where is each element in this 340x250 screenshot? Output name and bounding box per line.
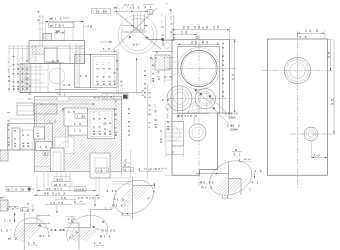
svg-text:3 5: 3 5 [331, 99, 335, 106]
lower-right bore mid [198, 92, 212, 106]
svg-text:1 3: 1 3 [181, 31, 188, 35]
detail 1 profile hline [24, 222, 50, 224]
svg-text:⌀0 . 7: ⌀0 . 7 [26, 133, 30, 147]
far right mid hatch block [155, 55, 170, 70]
leader arrow upper-left pair [194, 89, 212, 104]
big bore circle mid [181, 50, 217, 86]
flag note 2.1 [143, 5, 154, 15]
svg-text:ⓢM4: ⓢM4 [230, 127, 238, 132]
svg-text:3 0: 3 0 [231, 73, 235, 80]
dim counterbore line under bores [172, 114, 209, 118]
dim phi12 boxed [54, 177, 70, 182]
svg-text:⌀1 7 ⓢ 0: ⌀1 7 ⓢ 0 [50, 23, 64, 28]
datum target symbol [196, 36, 199, 40]
datum box B [43, 151, 48, 156]
svg-text:0 1 6 . 4 0: 0 1 6 . 4 0 [221, 42, 225, 66]
svg-text:2 : 1: 2 : 1 [234, 153, 241, 157]
mid-left body block [20, 64, 60, 93]
svg-text:1 . 5: 1 . 5 [68, 217, 75, 221]
svg-text:1 . 8: 1 . 8 [80, 74, 87, 78]
svg-text:⌀2 . 3: ⌀2 . 3 [113, 71, 117, 85]
detail 4 vline1 [228, 162, 230, 195]
step hline lower [152, 51, 172, 53]
svg-text:1 6: 1 6 [327, 52, 331, 59]
leader 2-M4 lower [212, 107, 240, 131]
centerline vertical middle view [198, 24, 200, 186]
mid small bore outer [189, 124, 206, 141]
slot white cover [123, 20, 151, 32]
cone bore circle outer [118, 15, 157, 54]
detail 4 hatch left [216, 174, 228, 195]
svg-text:⁺0 . 1: ⁺0 . 1 [57, 93, 66, 97]
leader 2-M4 upper [208, 95, 238, 119]
svg-text:1 . 5: 1 . 5 [68, 110, 75, 114]
detail 2 profile hline1 [68, 222, 79, 224]
centerline horizontal small circle [290, 133, 332, 135]
lower-right bore inner [200, 93, 211, 104]
detail 2 arrows [92, 226, 95, 228]
gdt frame mid with dark cell [102, 94, 128, 99]
detail 4 hatch mid [229, 179, 241, 193]
dim 7 lower left tab [166, 146, 184, 157]
svg-text:5 . 5 ⁺⁰·¹⁰: 5 . 5 ⁺⁰·¹⁰ [170, 9, 174, 33]
left notch lines middle view [172, 62, 178, 74]
svg-text:1 . 5: 1 . 5 [94, 241, 101, 245]
top circle mid [287, 60, 309, 82]
mid-left hatch [20, 64, 31, 93]
hatched rect right [34, 104, 57, 114]
hatch right strip [76, 46, 85, 64]
white region W3 with arc [55, 137, 74, 153]
svg-text:1 . 2 5: 1 . 2 5 [55, 228, 65, 232]
bracket lines [164, 58, 175, 80]
detail 4 top surface line [196, 173, 229, 175]
svg-text:2 . 5: 2 . 5 [165, 75, 172, 79]
dim 44.70 [45, 201, 72, 205]
svg-text:R 0 . 0 5: R 0 . 0 5 [200, 181, 214, 185]
svg-text:1: 1 [188, 110, 190, 114]
svg-text:⊥ 0 . 1: ⊥ 0 . 1 [97, 169, 108, 173]
left tab block [172, 122, 184, 147]
svg-text:⌀4 ¹: ⌀4 ¹ [0, 196, 6, 200]
mid-left inner vlines [25, 64, 48, 93]
svg-text:3 . ⁺⁰ 1 . ⁺⁰: 3 . ⁺⁰ 1 . ⁺⁰ [139, 167, 158, 171]
svg-text:⌀1: ⌀1 [36, 132, 40, 137]
left tab outer [165, 122, 172, 147]
svg-text:1 . 5: 1 . 5 [28, 241, 35, 245]
left tab circle [165, 126, 180, 141]
small circle inner [308, 131, 314, 137]
svg-text:⌀1 9: ⌀1 9 [157, 70, 161, 80]
centerline horizontal big bore [167, 68, 236, 70]
svg-text:0 . 1: 0 . 1 [150, 56, 157, 60]
detail 3 hatch left [120, 186, 132, 208]
white rect W2 [36, 142, 52, 151]
tall rect B hatch [75, 55, 80, 88]
tall rect B [75, 55, 91, 88]
svg-text:1 6: 1 6 [61, 196, 66, 200]
mid small bore inner [192, 127, 203, 138]
svg-text:: 0 .: : 0 . [13, 188, 19, 192]
svg-text:1 . 5 ⁺⁰·¹: 1 . 5 ⁺⁰·¹ [7, 207, 21, 211]
channel bottom edge [20, 92, 143, 94]
lower-left bore inner [174, 92, 186, 104]
lower body hatched block [34, 97, 121, 172]
svg-text:4 H 8: 4 H 8 [76, 188, 85, 192]
svg-text:⌀1 6 : D ¹⁰: ⌀1 6 : D ¹⁰ [154, 103, 158, 128]
long vline pair [34, 103, 36, 174]
detail 3 hatch right [133, 186, 152, 201]
detail 1 boundary arc [15, 218, 49, 241]
svg-text:2 . 0: 2 . 0 [122, 212, 129, 216]
dim 13 [172, 31, 197, 38]
svg-text:4: 4 [153, 190, 155, 194]
dim 16 short [55, 196, 76, 200]
light circle between views [165, 104, 170, 109]
mid-left inner hlines [20, 67, 48, 87]
svg-text:⌀1 6 . 5 ⁽⁷: ⌀1 6 . 5 ⁽⁷ [102, 61, 106, 85]
dim vertical right inner [221, 42, 225, 113]
bottom small rects [90, 153, 110, 178]
svg-text:3 . ⁺⁰: 3 . ⁺⁰ [74, 200, 83, 204]
channel top edge [55, 88, 97, 90]
dim arrow at step left [100, 41, 112, 42]
detail 1 hatch left [15, 224, 24, 243]
box 1.5 / 5 [75, 114, 89, 119]
detail 2 profile vline1 [78, 223, 80, 250]
svg-text:1 . 5 ⁽⁷ ·¹: 1 . 5 ⁽⁷ ·¹ [160, 13, 164, 36]
gdt frame bottom left [6, 187, 34, 192]
inner step rect middle view [178, 47, 220, 114]
detail 2 hatch left [70, 223, 79, 242]
detail 2 vert dim [71, 216, 73, 223]
center vline with arrow [136, 58, 138, 95]
long vline right [146, 85, 148, 180]
body outline right view [268, 39, 328, 175]
channel arrow line [40, 103, 95, 104]
svg-text:2 9 . 9 9 ± 0 . 1 0: 2 9 . 9 9 ± 0 . 1 0 [183, 26, 219, 30]
leader arrow down 1 [56, 203, 57, 214]
ext vlines lower bores [183, 84, 207, 124]
detail 3 mating lines left [112, 182, 133, 184]
body outline middle view [172, 40, 230, 176]
svg-text:1 . 8: 1 . 8 [40, 145, 47, 149]
top right step profile [148, 39, 176, 46]
svg-text:⌀0 . 6: ⌀0 . 6 [108, 121, 112, 135]
dim 35 right side [327, 40, 336, 135]
narrow rect stack [12, 128, 20, 150]
gdt frame top [92, 9, 111, 14]
svg-text:2 9 ± 0 . 1 0: 2 9 ± 0 . 1 0 [127, 107, 131, 136]
rotated dim 5.5 between views [170, 9, 175, 39]
detail 4 hline2 [229, 177, 241, 179]
svg-text:1 . 5: 1 . 5 [4, 219, 11, 223]
svg-text:⌀2 3 . 6 ± 0 . 2: ⌀2 3 . 6 ± 0 . 2 [12, 55, 16, 90]
left tab lines [165, 129, 184, 141]
slot verticals redraw [134, 20, 144, 30]
small circle right of cone [164, 43, 170, 49]
dim line mid cone [121, 25, 148, 26]
svg-text:0 . 0: 0 . 0 [98, 10, 105, 14]
svg-text:⌀0 3 . 9: ⌀0 3 . 9 [13, 129, 17, 147]
inner rect 2 [57, 46, 70, 64]
boxed dim 17 [49, 23, 75, 28]
svg-text:1 . 5: 1 . 5 [255, 169, 262, 173]
big bore circle inner [183, 52, 216, 85]
rotated dim col left of middle view [160, 13, 165, 39]
white rect W1 [34, 127, 45, 139]
small gdt box bottom [96, 168, 109, 173]
svg-text:⌀2 4 . 6 ± 0 . 2: ⌀2 4 . 6 ± 0 . 2 [7, 111, 11, 146]
svg-text:⊞ E 4 1 9 . 0: ⊞ E 4 1 9 . 0 [177, 114, 197, 118]
detail 3 profile hline [133, 184, 156, 186]
detail 2 hline mid [79, 227, 91, 229]
svg-text:4 1 . 5 ± 1: 4 1 . 5 ± 1 [46, 187, 62, 191]
svg-text:C 0 . 1: C 0 . 1 [28, 84, 32, 100]
leader arrow down 2 [94, 196, 95, 207]
dim 24.5 top right view [298, 29, 326, 40]
svg-text:2 2 . 4 3: 2 2 . 4 3 [191, 40, 209, 44]
bottom slot right [122, 150, 131, 178]
hatch left strip [29, 46, 36, 64]
detail 1 profile vline [23, 213, 25, 250]
upper-left block outline [29, 41, 85, 64]
svg-text:R 1 . 5: R 1 . 5 [100, 235, 111, 239]
svg-text:2 . 0 3: 2 . 0 3 [107, 189, 117, 193]
svg-text:2 : 1: 2 : 1 [22, 208, 29, 212]
detail 2 hatch right [79, 228, 102, 242]
stepped feature rects [17, 103, 34, 115]
detail 3 profile vline [132, 177, 134, 219]
svg-text:1 6: 1 6 [314, 154, 321, 158]
left edge tiny rect 2 [0, 200, 8, 211]
top circle inner [290, 63, 306, 79]
svg-text:2 . 5: 2 . 5 [162, 98, 169, 102]
centerline lower bores [168, 97, 232, 99]
hatch small patch [32, 46, 44, 54]
centerline horizontal top circle [262, 70, 333, 72]
svg-text:1 . 2: 1 . 2 [222, 195, 229, 199]
svg-text:1 6 . 4 0 . 1: 1 6 . 4 0 . 1 [221, 69, 225, 97]
detail 1 scale box [21, 208, 29, 212]
ext lines [9, 114, 45, 150]
svg-text:R 1 . 0 ⁺: R 1 . 0 ⁺ [112, 204, 126, 208]
svg-text:8 . 4: 8 . 4 [36, 10, 40, 21]
dim phi13.5 boxed [52, 182, 72, 187]
detail 2 hline top [91, 208, 113, 210]
ext lines down fan [37, 172, 99, 196]
left edge tiny rect [0, 150, 8, 161]
detail 1 hatch right [25, 224, 46, 240]
svg-text:1 . 6: 1 . 6 [103, 47, 110, 51]
inner hlines [29, 46, 85, 49]
detail 4 arrow on surface [216, 173, 219, 174]
svg-text:⌀1 4 . 5 ⁶⁷: ⌀1 4 . 5 ⁶⁷ [96, 60, 100, 85]
left tick column [40, 15, 43, 47]
small circle mid [306, 129, 316, 139]
white rect A mid [64, 108, 88, 126]
detail 3 boundary ellipse [108, 173, 160, 220]
svg-text:9 0 °: 9 0 ° [133, 43, 141, 47]
boss on top [43, 34, 52, 41]
dim arrow 1.6 [100, 47, 117, 52]
svg-text:4 4 . 7 0: 4 4 . 7 0 [50, 201, 63, 205]
white slot bottom left [50, 148, 64, 171]
cone arrow 2 [145, 37, 149, 39]
svg-text:⌀0 . 5 ⁽⁷: ⌀0 . 5 ⁽⁷ [21, 127, 25, 147]
ext lines top cluster [45, 21, 83, 41]
svg-text:2 . 4: 2 . 4 [300, 35, 307, 39]
detail 2 vline2 [90, 209, 92, 227]
tiny bore between [190, 103, 200, 113]
svg-text:⌀1 4 : D ¹⁰: ⌀1 4 : D ¹⁰ [151, 57, 155, 82]
slot bottom [134, 29, 144, 31]
dim line 21.5 [45, 21, 83, 23]
inner rect 1 [44, 48, 57, 62]
svg-text:5: 5 [84, 115, 86, 119]
svg-text:⌀1 7 . 5 ⁽⁷: ⌀1 7 . 5 ⁽⁷ [92, 111, 96, 135]
lower-right bore outer [195, 89, 215, 109]
svg-text:1 . 5: 1 . 5 [115, 59, 119, 70]
small circle outer [304, 127, 318, 141]
svg-text:⌀1 . 2: ⌀1 . 2 [8, 237, 17, 241]
detail 2 boundary ellipse [67, 215, 108, 241]
svg-text:⌀9: ⌀9 [56, 29, 60, 33]
svg-text:⌀1 7 . 1 ⓢ 0 . 1: ⌀1 7 . 1 ⓢ 0 . 1 [112, 99, 117, 136]
svg-text:4 6 . 5 ± 0 . 2: 4 6 . 5 ± 0 . 2 [44, 191, 65, 195]
svg-text:⌀0 1 . 6 ⁺⁰·²⁻: ⌀0 1 . 6 ⁺⁰·²⁻ [50, 17, 71, 21]
filled dot step [161, 38, 163, 40]
svg-text:7: 7 [172, 151, 174, 155]
dim 22.43 [178, 40, 220, 45]
mid-left circle [49, 68, 65, 84]
top slot vlines middle view [196, 40, 203, 47]
detail 4 hatch right [241, 179, 249, 188]
dim 29.99 top [172, 26, 230, 38]
svg-text:⌀1 2: ⌀1 2 [57, 178, 64, 182]
svg-text:4 . 0: 4 . 0 [63, 83, 70, 87]
centerline vertical right view [297, 32, 299, 188]
svg-text:⁺: ⁺ [166, 2, 168, 6]
svg-text:R 1 . 5: R 1 . 5 [114, 198, 125, 202]
label cluster lower [88, 109, 115, 139]
dim 16 right side [327, 40, 333, 71]
dim 46.5 [34, 191, 99, 200]
svg-text:3 . 0: 3 . 0 [52, 59, 59, 63]
svg-text:○: ○ [93, 10, 95, 14]
svg-text:M 5 ⓢ 8: M 5 ⓢ 8 [102, 117, 107, 135]
svg-text:4 . 1: 4 . 1 [252, 181, 259, 185]
detail 4 vline2 [240, 178, 242, 195]
svg-text:R 1 . 5: R 1 . 5 [40, 234, 51, 238]
detail 1 step above [37, 215, 50, 223]
cone bore circle inner [122, 19, 154, 51]
svg-text:⌀1 2 . 5 ⁽⁷: ⌀1 2 . 5 ⁽⁷ [98, 111, 102, 135]
channel step lines [34, 99, 121, 101]
white rect W4 [68, 125, 91, 136]
svg-text:R 1 . 5: R 1 . 5 [202, 186, 213, 190]
bore label cluster box [91, 55, 118, 88]
cone cross line 2 [116, 12, 161, 49]
lower-left bore outer [167, 86, 192, 111]
inner vlines [70, 43, 80, 64]
dim vertical far right middle view [230, 40, 237, 114]
dim 16 below small circle [312, 141, 328, 159]
svg-text:ⓢM4: ⓢM4 [228, 115, 236, 120]
detail 3 right dim arrow [153, 183, 155, 189]
svg-text:D: D [235, 148, 237, 152]
svg-text:2 . 1: 2 . 1 [145, 5, 152, 9]
svg-text:⁺⁰·² ⁻⁰: ⁺⁰·² ⁻⁰ [124, 3, 135, 7]
cone arrow 1 [129, 36, 132, 39]
top circle outer [284, 57, 310, 83]
dim 41.5 [37, 187, 96, 192]
svg-text:− 4 B: − 4 B [84, 25, 93, 29]
right mid vline pair [117, 49, 119, 95]
svg-text:1 . 5: 1 . 5 [74, 129, 81, 133]
svg-text:7 3 . 5 ± 0 . 1 5: 7 3 . 5 ± 0 . 1 5 [147, 91, 151, 128]
svg-text:2 : 1: 2 : 1 [125, 168, 132, 172]
svg-text:⌀0 . 4: ⌀0 . 4 [159, 129, 163, 143]
svg-text:R 0 . 2 5: R 0 . 2 5 [102, 229, 116, 233]
cone cross line 1 [113, 8, 157, 50]
svg-text:⊢: ⊢ [156, 50, 159, 55]
svg-text:2 4 . 5: 2 4 . 5 [305, 29, 319, 33]
svg-text:1 . 0: 1 . 0 [74, 122, 81, 126]
slot flange line [123, 31, 147, 33]
svg-text:◎: ◎ [7, 188, 10, 192]
bottom edge lines [34, 167, 121, 178]
detail 3 scale box [123, 168, 134, 172]
big bore circle outer [178, 48, 220, 90]
detail 1 vert dim [14, 213, 16, 223]
lower-left bore mid [170, 89, 189, 108]
svg-text:3 . 9 5 ⁻⁰ · ²: 3 . 9 5 ⁻⁰ · ² [7, 60, 11, 90]
bracket outer rect [8, 124, 53, 150]
detail 4 boundary ellipse [204, 154, 257, 202]
svg-text:⌀1 6 . 5 H 7 ·¹: ⌀1 6 . 5 H 7 ·¹ [16, 56, 20, 90]
dim line top slot [114, 3, 149, 30]
